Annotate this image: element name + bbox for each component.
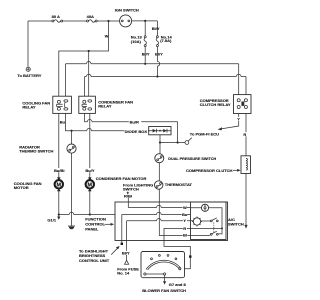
connector to PGM-FI ECU [185,138,192,145]
riser: Y wire down to fuse 14 connector [126,221,128,260]
blower switch common line [146,273,164,275]
radiator thermo switch S1 [67,144,76,153]
wire: condenser relay right output to motor [89,113,91,179]
svg-text:To BATTERY: To BATTERY [17,73,41,78]
ignition switch U1 [120,15,132,27]
svg-text:Bl/Y: Bl/Y [155,51,163,56]
blower switch position dots [151,258,153,260]
AC switch lamp 2 (illumination) [192,217,202,227]
arrowhead: clutch feed end [244,225,247,229]
node: bus2 fuse14 junction [156,75,158,77]
svg-text:CONDENSER FAN MOTOR: CONDENSER FAN MOTOR [96,176,147,181]
wire Y to AC switch [127,218,191,220]
wire: cooling motor to ground junction [58,189,60,215]
blower switch arc [146,260,181,269]
label Bu/Bl [54,168,65,173]
blower fan switch box [141,252,185,278]
wire: diode box output [160,135,185,154]
cooling fan motor M1 [55,177,63,191]
bus2: fuse14 horizontal bus [85,74,246,76]
svg-text:Bu: Bu [182,212,188,217]
AC switch lamp 1 [201,204,208,211]
label R [183,226,187,231]
label Bu/Y [85,168,95,173]
label Y [183,218,187,223]
svg-text:CLUTCH RELAY: CLUTCH RELAY [200,102,231,107]
svg-text:RELAY: RELAY [98,103,112,108]
wire: main top feed from battery corner to IGN switch [28,20,120,22]
AC switch interior wiring right [191,208,223,234]
node: condenser feed junction [88,50,90,52]
svg-text:IGN SWITCH: IGN SWITCH [115,7,139,12]
wire: fuse14 down crossing bus1 to bus2 [157,47,159,77]
svg-text:W: W [183,205,187,210]
svg-text:R: R [243,132,246,137]
wire: compressor clutch to AC switch arrow [245,174,247,226]
wire: DPS to thermostat [158,163,160,181]
wire: cooling relay left output to motor [58,113,60,179]
compressor clutch relay K3 [234,95,252,114]
svg-text:BLOWER FAN SWITCH: BLOWER FAN SWITCH [142,288,186,293]
wire: compressor relay switch output down [245,114,247,156]
riser Bu to dashlight connector [121,215,123,243]
svg-text:M: M [88,182,93,188]
node: ground junction [58,213,60,215]
compressor clutch L1 [241,156,251,174]
label R [243,132,246,137]
svg-text:Bu/R: Bu/R [130,119,139,124]
AC switch contacts upper [191,218,219,222]
label Bu [182,212,188,217]
wire: thermo switch to ground [71,153,73,225]
svg-text:40A: 40A [87,14,94,19]
wire: blower common to G7 ground [164,275,166,281]
svg-text:Bl/Y: Bl/Y [122,251,130,256]
svg-text:W: W [105,33,109,38]
wire: bus2 right drop to compressor relay [245,77,247,95]
label Bl [183,232,188,237]
wire: bus1 left drop to cooling relay [65,64,67,96]
svg-text:DIODE BOX: DIODE BOX [125,129,148,134]
AC switch gang link (dashed) [213,223,215,233]
svg-text:No. 14: No. 14 [117,270,130,275]
condenser fan motor M2 [86,177,94,191]
node: thermo tap [70,130,72,132]
svg-text:Bl/Y: Bl/Y [152,26,160,31]
svg-text:G7 and 8: G7 and 8 [169,282,187,287]
svg-text:SWITCH: SWITCH [123,186,139,191]
cooling fan relay K1 [53,96,72,113]
connector: blower feed (black square) [189,255,191,257]
connector: dashlight brightness (black square) [121,243,123,245]
ground bus wire [59,212,115,214]
wire: bus2 left drop to condenser relay [84,77,86,97]
arrow to compressor clutch [233,169,238,171]
svg-text:CONTROL UNIT: CONTROL UNIT [79,258,110,263]
wire: fuse13 down to bus1 [144,47,146,64]
wire: IGN switch to fuse columns [132,20,158,22]
svg-text:80 A: 80 A [52,14,60,19]
label Y [237,117,241,122]
condenser fan relay K2 [79,96,96,113]
svg-text:Bu: Bu [60,120,66,125]
wire: fuse13 column upper [145,21,157,36]
svg-text:Y: Y [237,117,240,122]
dual pressure switch S2 [155,154,164,163]
wire: cooling relay right output to thermo bus [66,113,149,130]
svg-text:(7.5A): (7.5A) [160,38,172,43]
node: bus1 fuse13 junction [144,63,146,65]
svg-text:SWITCH: SWITCH [228,222,244,227]
diode box D1 D2 [149,127,171,135]
wire: bus1 right drop to compressor relay [238,64,240,95]
wire W to AC switch [128,205,190,207]
wire Bu to AC switch [122,212,191,214]
wire: Bu/R bus drop to ECU node [177,122,179,143]
node: fuse13 tap [144,20,146,22]
svg-text:PANEL: PANEL [85,227,99,232]
wire: drop to radiator thermo switch [71,131,73,144]
wire: compressor relay coil output with Y label and arrow to ECU [221,114,239,129]
wire Bl from thermostat to AC switch [159,189,190,235]
label Bu/R [129,119,141,124]
function control panel box [115,202,228,241]
label DIODE BOX [124,129,148,134]
svg-text:COMPRESSOR CLUTCH: COMPRESSOR CLUTCH [186,168,233,173]
wire R from AC switch to blower feed [164,228,222,268]
label W [183,205,187,210]
svg-text:R: R [183,226,186,231]
ground arrow G1/1 [58,215,60,218]
svg-text:THERMOSTAT: THERMOSTAT [165,182,193,187]
wire: battery drop [27,21,29,67]
svg-text:G1/1: G1/1 [47,218,56,223]
wire: W drop and feed to relays [59,21,109,96]
svg-text:M: M [57,182,62,188]
svg-text:(10A): (10A) [131,39,142,44]
AC switch contacts lower [191,231,219,235]
node: diode center tap [159,130,161,132]
wire: condenser relay left output to Bu/R bus [85,113,178,121]
svg-text:To PGM-FI ECU: To PGM-FI ECU [190,131,219,136]
fuse No.14 [156,36,158,47]
ground: radiator thermo switch [68,226,75,229]
svg-text:THERMO SWITCH: THERMO SWITCH [19,148,53,153]
fuse No.13 [144,36,146,47]
blower common junction contact [164,273,166,275]
node: diode output junction [159,141,161,143]
thermostat S3 [155,181,163,189]
svg-text:MOTOR: MOTOR [14,185,29,190]
fuse 40A [87,20,98,22]
svg-text:Bl/Y: Bl/Y [142,51,150,56]
label Bl/Y [122,251,132,256]
svg-text:RELAY: RELAY [22,104,36,109]
svg-text:Bu/Bl: Bu/Bl [54,168,64,173]
riser from lighting switch to W wire [127,198,129,208]
connector triangle: from fuse 14 [125,260,129,264]
node: condenser motor ground junction [89,213,91,215]
svg-text:Y: Y [183,218,186,223]
A/C switch box [191,202,227,240]
bus1: fuse13 horizontal bus [66,62,239,64]
wire: condenser motor to ground bus [89,189,91,215]
blower switch wiper contact [179,268,181,270]
node: BuR-ECU junction [177,141,179,143]
svg-text:DUAL PRESSURE SWITCH: DUAL PRESSURE SWITCH [168,157,216,161]
fuse 80A [52,20,63,22]
node: W junction [107,20,109,22]
node: AC switch R junction [221,227,223,229]
battery terminal [26,67,30,71]
arrowhead to PGM-FI ECU [218,127,222,130]
svg-text:Bu/Y: Bu/Y [85,168,94,173]
svg-text:Bl: Bl [183,232,187,237]
